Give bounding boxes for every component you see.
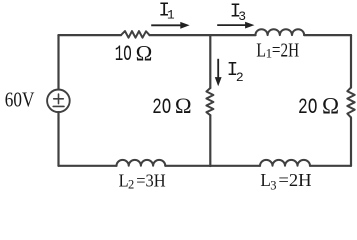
svg-text:60V: 60V xyxy=(5,87,35,111)
svg-text:2O: 2O xyxy=(152,95,171,120)
svg-text:3: 3 xyxy=(238,9,246,24)
svg-text:1: 1 xyxy=(167,8,175,23)
svg-text:2: 2 xyxy=(128,178,134,192)
svg-text:Ω: Ω xyxy=(175,93,192,118)
svg-text:3: 3 xyxy=(270,178,276,192)
svg-text:=2H: =2H xyxy=(272,40,299,61)
svg-text:1O: 1O xyxy=(115,42,132,67)
svg-text:Ω: Ω xyxy=(136,40,153,65)
svg-text:=3H: =3H xyxy=(136,170,165,190)
svg-text:2: 2 xyxy=(236,70,244,85)
svg-text:2O: 2O xyxy=(298,95,318,120)
svg-text:=2H: =2H xyxy=(278,170,311,190)
svg-text:Ω: Ω xyxy=(322,93,339,118)
